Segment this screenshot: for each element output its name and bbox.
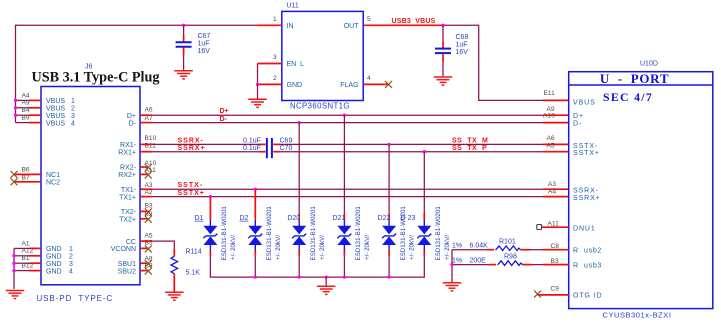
svg-text:A9: A9 xyxy=(22,100,30,107)
svg-text:+/- 20kV/: +/- 20kV/ xyxy=(319,235,326,260)
no-connect X TX2- xyxy=(145,208,152,215)
no-connect X NC2 xyxy=(11,178,18,185)
svg-text:ESD131-B1-W0201: ESD131-B1-W0201 xyxy=(266,206,273,261)
wire NC1 stub xyxy=(14,173,41,175)
svg-text:A3: A3 xyxy=(145,182,153,189)
wire SSRX- left xyxy=(140,143,152,145)
no-connect X FLAG xyxy=(385,81,392,88)
svg-text:D-: D- xyxy=(573,120,582,127)
wire OUT to corner xyxy=(388,24,443,26)
svg-text:SSTX-: SSTX- xyxy=(573,143,598,150)
no-connect stub TX2+ xyxy=(140,218,149,220)
junction VBUS3 xyxy=(14,114,17,117)
svg-text:D+: D+ xyxy=(127,113,136,120)
svg-text:C68: C68 xyxy=(456,34,469,41)
svg-text:ESD131-B1-W0201: ESD131-B1-W0201 xyxy=(435,206,442,261)
junction VBUS2 xyxy=(14,106,17,109)
wire R98 right xyxy=(523,264,533,266)
svg-text:16V: 16V xyxy=(456,49,469,56)
diode D21 ESD131-B1-W0201 xyxy=(333,115,371,277)
svg-text:A12: A12 xyxy=(22,248,34,255)
svg-text:SSTX+: SSTX+ xyxy=(573,150,600,157)
svg-text:R98: R98 xyxy=(504,253,517,260)
svg-text:OTG ID: OTG ID xyxy=(573,293,603,300)
capacitor C67 lead lower xyxy=(183,48,185,56)
wire VBUS3 stub xyxy=(16,114,30,116)
svg-text:+/- 20kV/: +/- 20kV/ xyxy=(364,235,371,260)
wire VBUS loop left vertical xyxy=(16,25,258,122)
ground under R114 xyxy=(165,292,184,300)
no-connect stub RX2+ xyxy=(140,173,149,175)
svg-text:B12: B12 xyxy=(22,263,34,270)
junction D20 tap xyxy=(298,121,301,124)
svg-text:16V: 16V xyxy=(198,48,211,55)
svg-text:TX1+: TX1+ xyxy=(119,194,136,201)
svg-text:GND4: GND4 xyxy=(46,268,73,275)
svg-text:C9: C9 xyxy=(551,286,560,293)
junction D1 tap xyxy=(209,195,212,198)
wire D+ xyxy=(140,114,152,116)
svg-text:+/- 20kV/: +/- 20kV/ xyxy=(444,235,451,260)
svg-text:SSRX-: SSRX- xyxy=(573,188,599,195)
wire GND2 stub xyxy=(14,255,29,257)
svg-text:1%: 1% xyxy=(452,258,462,265)
resistor R114 xyxy=(173,248,175,256)
no-connect stub RX2- xyxy=(140,166,149,168)
svg-text:TX1-: TX1- xyxy=(121,187,137,194)
ground symbol J6 xyxy=(6,291,24,299)
svg-text:D1: D1 xyxy=(194,215,203,222)
svg-text:1uF: 1uF xyxy=(456,42,468,49)
resistor R101 xyxy=(496,246,521,251)
pin stub OUT xyxy=(363,24,388,26)
svg-text:A3: A3 xyxy=(548,181,556,188)
svg-text:A1: A1 xyxy=(22,240,30,247)
svg-text:2: 2 xyxy=(273,75,277,82)
wire SSRX+ left xyxy=(140,151,152,153)
svg-text:1uF: 1uF xyxy=(198,41,210,48)
ground under R101/R98 xyxy=(443,283,461,291)
svg-text:0.1uF: 0.1uF xyxy=(243,145,261,152)
wire SS TX M right xyxy=(273,143,280,145)
svg-text:VBUS1: VBUS1 xyxy=(46,98,75,105)
svg-text:R114: R114 xyxy=(186,249,202,256)
svg-text:GND3: GND3 xyxy=(46,261,73,268)
junction VBUS1 xyxy=(14,99,17,102)
svg-text:U10D: U10D xyxy=(640,61,658,68)
pin stub EN xyxy=(258,63,282,65)
svg-text:D-: D- xyxy=(220,116,228,123)
svg-text:RX2-: RX2- xyxy=(120,165,137,172)
svg-text:ESD131-B1-W0201: ESD131-B1-W0201 xyxy=(310,206,317,261)
svg-text:C70: C70 xyxy=(280,145,293,152)
wire R101-R98 vertical xyxy=(451,250,453,282)
svg-text:R usb2: R usb2 xyxy=(573,247,602,254)
svg-text:U11: U11 xyxy=(287,3,299,10)
pin stub OTG ID xyxy=(538,294,569,296)
svg-text:USB3 VBUS: USB3 VBUS xyxy=(392,18,436,25)
svg-text:5: 5 xyxy=(367,16,371,23)
junction D21 tap xyxy=(343,114,346,117)
wire VBUS1 stub xyxy=(16,99,30,101)
svg-text:C69: C69 xyxy=(280,137,293,144)
junction D2 tap xyxy=(254,188,257,191)
wire VBUS4 stub xyxy=(16,122,30,124)
pin stub IN xyxy=(258,24,282,26)
wire EN to GND xyxy=(257,64,259,85)
svg-text:D-: D- xyxy=(129,120,137,127)
svg-text:SSRX+: SSRX+ xyxy=(178,145,206,152)
wire GND3 stub xyxy=(14,262,29,264)
svg-text:B10: B10 xyxy=(145,135,157,142)
IC U10D body xyxy=(569,72,713,309)
no-connect X SBU1 xyxy=(145,260,152,267)
svg-text:ESD131-B1-W0201: ESD131-B1-W0201 xyxy=(221,206,228,261)
svg-text:EN L: EN L xyxy=(287,61,305,68)
wire SS TX P right xyxy=(273,151,280,153)
wire D- xyxy=(140,122,152,124)
svg-text:VBUS2: VBUS2 xyxy=(46,106,75,113)
wire bus to ground xyxy=(325,277,327,285)
wire GND down xyxy=(257,84,259,98)
svg-text:A6: A6 xyxy=(145,107,153,114)
svg-text:RX2+: RX2+ xyxy=(118,172,136,179)
ground under diode bus xyxy=(317,286,336,294)
svg-text:A4: A4 xyxy=(548,188,556,195)
svg-text:OUT: OUT xyxy=(344,23,360,30)
junction bus D2 xyxy=(254,275,257,278)
junction EN-GND xyxy=(256,83,259,86)
svg-text:0.1uF: 0.1uF xyxy=(243,137,261,144)
DNU1 no-connect square xyxy=(537,225,542,230)
svg-text:GND: GND xyxy=(287,82,303,89)
capacitor C68 lead lower xyxy=(442,54,444,62)
no-connect X RX2+ xyxy=(145,171,152,178)
capacitor C67 plates xyxy=(176,41,192,43)
wire R101 left xyxy=(452,249,487,251)
svg-text:A6: A6 xyxy=(547,135,555,142)
svg-text:VBUS3: VBUS3 xyxy=(46,113,75,120)
svg-text:SEC 4/7: SEC 4/7 xyxy=(603,90,653,104)
ground under C67 xyxy=(174,71,193,79)
junction GND4 xyxy=(12,269,15,272)
svg-text:VCONN: VCONN xyxy=(111,246,136,253)
capacitor C69 plates (shared with C70) xyxy=(266,138,268,158)
junction C67 tap xyxy=(182,24,185,27)
pin stub FLAG xyxy=(363,83,389,85)
svg-text:FLAG: FLAG xyxy=(340,82,358,89)
svg-text:U - PORT: U - PORT xyxy=(600,71,669,86)
svg-text:4: 4 xyxy=(367,75,371,82)
junction D22 tap xyxy=(387,143,390,146)
wire VBUS2 stub xyxy=(16,107,30,109)
pin stub VBUS E11 xyxy=(543,99,569,101)
svg-text:A10: A10 xyxy=(543,112,555,119)
junction bus D21 xyxy=(343,275,346,278)
svg-text:A11: A11 xyxy=(548,220,560,227)
svg-text:VBUS4: VBUS4 xyxy=(46,120,75,127)
svg-text:CYUSB301x-BZXI: CYUSB301x-BZXI xyxy=(603,311,672,320)
connector J6 body xyxy=(41,87,140,285)
diode D2 ESD131-B1-W0201 xyxy=(239,190,281,277)
wire R98 left xyxy=(452,264,489,266)
svg-text:D20: D20 xyxy=(287,215,300,222)
svg-text:RX1+: RX1+ xyxy=(118,150,136,157)
diode D23 ESD131-B1-W0201 xyxy=(401,152,451,261)
svg-text:ESD131-B1-W0201: ESD131-B1-W0201 xyxy=(355,206,362,261)
svg-text:NC2: NC2 xyxy=(46,180,60,187)
capacitor C67 lead upper xyxy=(183,25,185,35)
svg-text:GND2: GND2 xyxy=(46,254,73,261)
junction GND2 xyxy=(12,254,15,257)
no-connect stub SBU1 xyxy=(140,262,149,264)
wire SSTX- xyxy=(140,188,152,190)
wire GND4 stub xyxy=(14,270,29,272)
wire GND vertical xyxy=(13,248,15,289)
svg-text:SS TX M: SS TX M xyxy=(452,137,488,144)
junction bus D20 xyxy=(298,275,301,278)
ground under C68 xyxy=(434,77,452,85)
junction bus D22 xyxy=(387,275,390,278)
diode D20 ESD131-B1-W0201 xyxy=(287,123,325,278)
wire NC2 stub xyxy=(14,181,41,183)
svg-text:D21: D21 xyxy=(333,215,346,222)
IC U11 body xyxy=(282,11,363,100)
svg-text:NCP360SNT1G: NCP360SNT1G xyxy=(290,101,350,110)
diode D1 ESD131-B1-W0201 xyxy=(194,198,237,261)
junction R98 tap xyxy=(450,263,453,266)
capacitor C68 plates xyxy=(435,48,451,50)
svg-text:B9: B9 xyxy=(22,115,30,122)
svg-text:D 23: D 23 xyxy=(401,215,416,222)
svg-text:B1: B1 xyxy=(22,255,30,262)
svg-text:CC: CC xyxy=(126,239,136,246)
svg-text:SSRX+: SSRX+ xyxy=(573,195,601,202)
no-connect stub VCONN xyxy=(140,247,149,249)
svg-text:VBUS: VBUS xyxy=(573,99,596,106)
pin stub GND xyxy=(258,83,282,85)
junction D23 tap xyxy=(423,150,426,153)
svg-text:SBU1: SBU1 xyxy=(118,261,136,268)
svg-text:A5: A5 xyxy=(145,232,153,239)
wire SSTX+ xyxy=(140,196,152,198)
svg-text:6.04K: 6.04K xyxy=(470,243,489,250)
svg-text:GND1: GND1 xyxy=(46,246,73,253)
svg-text:RX1-: RX1- xyxy=(120,142,137,149)
svg-text:E11: E11 xyxy=(544,90,556,97)
svg-text:DNU1: DNU1 xyxy=(573,226,596,233)
svg-text:200E: 200E xyxy=(470,258,487,265)
wire CC xyxy=(140,240,152,242)
svg-text:+/- 20kV/: +/- 20kV/ xyxy=(275,235,282,260)
svg-text:SSTX-: SSTX- xyxy=(178,182,204,189)
svg-text:TX2+: TX2+ xyxy=(119,217,136,224)
svg-text:SS TX P: SS TX P xyxy=(452,145,487,152)
svg-text:SBU2: SBU2 xyxy=(118,268,136,275)
svg-text:SSTX+: SSTX+ xyxy=(178,190,205,197)
svg-text:D22: D22 xyxy=(378,215,391,222)
svg-text:A5: A5 xyxy=(547,143,555,150)
svg-text:R101: R101 xyxy=(499,238,516,245)
svg-text:D+: D+ xyxy=(573,113,584,120)
header separator xyxy=(569,84,713,86)
svg-text:TX2-: TX2- xyxy=(121,209,137,216)
junction bus ground tap xyxy=(325,275,328,278)
bus wire under diodes xyxy=(210,256,424,278)
svg-text:C67: C67 xyxy=(198,33,211,40)
svg-text:+/- 20kV/: +/- 20kV/ xyxy=(230,235,237,260)
no-connect stub SBU2 xyxy=(140,270,149,272)
no-connect X VCONN xyxy=(145,245,152,252)
capacitor C68 lead upper xyxy=(442,25,444,41)
resistor R98 xyxy=(498,261,523,266)
svg-text:A7: A7 xyxy=(145,115,153,122)
diode D22 ESD131-B1-W0201 xyxy=(378,144,416,277)
no-connect X RX2- xyxy=(145,164,152,171)
svg-text:A4: A4 xyxy=(22,92,30,99)
svg-text:NC1: NC1 xyxy=(46,172,60,179)
svg-text:R usb3: R usb3 xyxy=(573,262,602,269)
no-connect X TX2+ xyxy=(145,216,152,223)
junction C68 tap xyxy=(441,24,444,27)
svg-text:USB 3.1 Type-C Plug: USB 3.1 Type-C Plug xyxy=(32,70,160,86)
wire GND1 stub xyxy=(14,247,29,249)
no-connect stub TX2- xyxy=(140,210,149,212)
junction GND3 xyxy=(12,262,15,265)
svg-text:SSRX-: SSRX- xyxy=(178,137,204,144)
svg-text:5.1K: 5.1K xyxy=(186,270,201,277)
wire R101 right xyxy=(521,249,531,251)
svg-text:1%: 1% xyxy=(452,243,462,250)
svg-text:1: 1 xyxy=(273,16,277,23)
svg-text:IN: IN xyxy=(287,23,294,30)
svg-text:D+: D+ xyxy=(220,108,229,115)
no-connect X SBU2 xyxy=(145,268,152,275)
svg-text:+/- 20kV/: +/- 20kV/ xyxy=(409,235,416,260)
svg-text:D2: D2 xyxy=(239,215,248,222)
svg-text:B7: B7 xyxy=(22,175,30,182)
ground under U11 xyxy=(248,99,267,107)
pin stub DNU1 xyxy=(542,226,569,228)
svg-text:B6: B6 xyxy=(22,166,30,173)
no-connect X OTG xyxy=(534,291,541,298)
svg-text:B4: B4 xyxy=(22,107,30,114)
svg-text:USB-PD TYPE-C: USB-PD TYPE-C xyxy=(37,294,114,303)
no-connect X NC1 xyxy=(11,171,18,178)
svg-text:3: 3 xyxy=(273,54,277,61)
